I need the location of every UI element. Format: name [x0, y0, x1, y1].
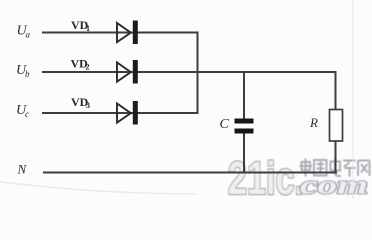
wire Uc	[42, 112, 199, 114]
label Uc	[16, 103, 29, 119]
svg-text:3: 3	[86, 101, 90, 110]
svg-text:C: C	[220, 117, 230, 132]
label VD3	[71, 95, 90, 110]
label VD2	[71, 57, 90, 72]
label VD1	[71, 18, 90, 33]
resistor R	[330, 110, 343, 142]
svg-text:b: b	[25, 69, 30, 79]
svg-text:2: 2	[86, 63, 90, 72]
watermark 21ic	[228, 152, 304, 204]
wire Ub output bus	[42, 71, 337, 73]
label Ua	[17, 24, 31, 40]
svg-text:N: N	[17, 162, 28, 177]
label Ub	[16, 63, 30, 79]
wire resistor branch top	[335, 71, 337, 110]
capacitor C	[235, 119, 254, 134]
faint right border	[352, 0, 354, 199]
wire capacitor branch bottom	[243, 134, 245, 174]
wire capacitor branch top	[243, 72, 245, 119]
svg-text:c: c	[25, 109, 29, 119]
svg-text:com: com	[300, 171, 368, 200]
svg-text:a: a	[26, 30, 31, 40]
svg-text:21ic.: 21ic.	[228, 152, 304, 199]
diode VD2	[117, 60, 138, 84]
watermark com script	[300, 171, 368, 200]
diode VD3	[117, 101, 138, 125]
label N	[17, 162, 28, 177]
page curl shadow bottom left	[0, 182, 195, 194]
watermark chinese characters	[300, 159, 370, 177]
wire cathode tie vertical	[197, 32, 199, 115]
wire Ua	[42, 32, 198, 34]
diode VD1	[117, 21, 138, 45]
wire N	[43, 172, 337, 174]
wire resistor branch bottom	[335, 141, 337, 173]
svg-text:R: R	[309, 115, 318, 130]
